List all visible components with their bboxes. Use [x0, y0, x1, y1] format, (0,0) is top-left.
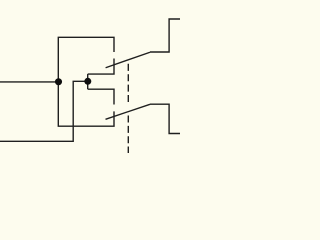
mechanical link (dashed gang line, lower part) — [127, 116, 129, 154]
switch S2 lever (movable contact) — [106, 104, 151, 119]
mechanical link (dashed gang line, upper part) — [127, 64, 129, 102]
wire fork stem through node B — [87, 74, 89, 89]
wire to S2 upper fixed contact — [88, 89, 114, 104]
wire to S1 pole terminal stub — [88, 59, 114, 75]
wire bottom branch: node A down, across to S2 pole terminal stub — [58, 82, 114, 126]
wire S1 output to right edge — [150, 19, 180, 52]
wire input 2 (left edge, up, to node B) — [0, 81, 86, 141]
node B junction dot — [84, 78, 91, 85]
node A junction dot — [55, 78, 62, 85]
wire top branch: node A up, across, down to S1 upper fixed contact — [58, 37, 114, 82]
wire S2 output to right edge — [150, 104, 180, 133]
wire input 1 (left edge to node A) — [0, 81, 56, 83]
switch S1 lever (movable contact) — [106, 52, 150, 67]
